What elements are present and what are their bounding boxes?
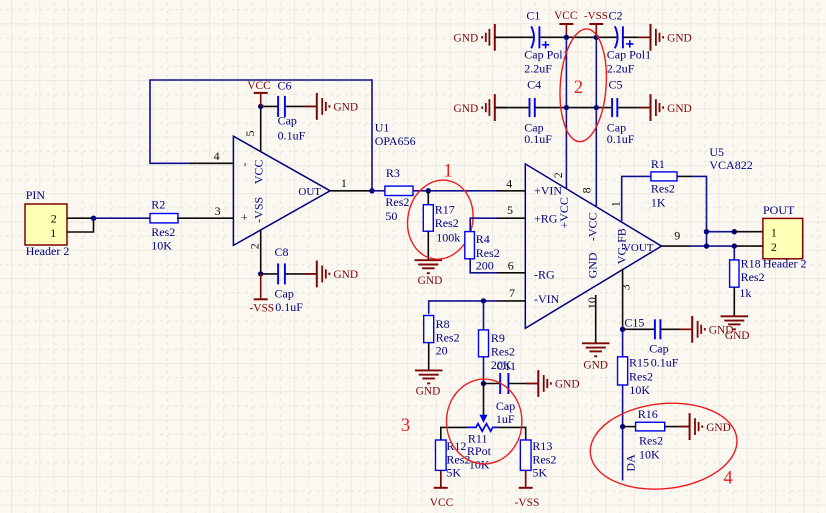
ground GND at C11 bbox=[526, 370, 579, 397]
svg-text:-VSS: -VSS bbox=[584, 10, 608, 22]
capacitor C15 bbox=[623, 316, 693, 370]
svg-text:0.1uF: 0.1uF bbox=[524, 132, 552, 146]
node junction pin7/R9 bbox=[481, 298, 486, 303]
svg-text:VCC: VCC bbox=[554, 10, 577, 22]
svg-text:OUT: OUT bbox=[298, 186, 321, 198]
svg-text:Cap: Cap bbox=[278, 114, 297, 128]
svg-text:GND: GND bbox=[583, 360, 608, 372]
svg-text:OPA656: OPA656 bbox=[375, 134, 416, 148]
capacitor C2 polarized bbox=[596, 8, 651, 75]
resistor R13 bbox=[520, 439, 556, 479]
svg-text:GND: GND bbox=[333, 102, 358, 114]
net label DA wire stub bbox=[623, 427, 638, 481]
svg-text:C4: C4 bbox=[527, 78, 541, 92]
wire C4 to C5 row bbox=[566, 107, 596, 109]
node junction C6/VCC/pin5 bbox=[258, 104, 263, 109]
pin 2 lead POUT bbox=[734, 245, 763, 247]
svg-text:C1: C1 bbox=[526, 8, 540, 22]
svg-text:Cap: Cap bbox=[649, 342, 668, 356]
svg-text:5K: 5K bbox=[446, 466, 461, 480]
wire R3 to U5 pin 4 bbox=[413, 177, 525, 191]
wire R18 to ground bbox=[733, 287, 735, 316]
wire U1 output to R3 bbox=[372, 190, 385, 192]
svg-text:6: 6 bbox=[508, 258, 514, 272]
node junction pin3/C15/R15 bbox=[620, 327, 625, 332]
capacitor C1 polarized bbox=[495, 8, 569, 75]
svg-text:1: 1 bbox=[608, 201, 622, 207]
svg-text:4: 4 bbox=[214, 149, 220, 163]
annotation number 4 bbox=[723, 469, 732, 489]
svg-text:-VSS: -VSS bbox=[252, 197, 266, 223]
capacitor C11 bbox=[484, 359, 539, 426]
svg-text:0.1uF: 0.1uF bbox=[607, 132, 635, 146]
svg-text:1K: 1K bbox=[651, 195, 666, 209]
svg-text:5: 5 bbox=[507, 203, 513, 217]
resistor R15 bbox=[618, 329, 653, 397]
connector J1 PIN header bbox=[25, 188, 69, 258]
node junction C5/-VSS rail bbox=[594, 105, 599, 110]
svg-text:+VCC: +VCC bbox=[557, 197, 571, 228]
svg-text:VCA822: VCA822 bbox=[709, 158, 752, 172]
wire R16 to ground bbox=[665, 426, 690, 428]
node junction R1 wire to output bbox=[704, 243, 709, 248]
capacitor C8 bbox=[261, 245, 317, 314]
svg-text:C15: C15 bbox=[624, 316, 644, 330]
annotation number 1 bbox=[443, 162, 452, 182]
resistor R16 bbox=[623, 407, 665, 461]
svg-text:-VIN: -VIN bbox=[534, 292, 560, 306]
svg-text:100k: 100k bbox=[436, 231, 460, 245]
resistor R9 bbox=[479, 301, 515, 372]
svg-text:10K: 10K bbox=[151, 238, 172, 252]
power -VSS at U1 pin 2 bbox=[249, 274, 274, 315]
wire R17 to ground bbox=[427, 231, 429, 260]
svg-text:R2: R2 bbox=[151, 197, 165, 211]
svg-text:2.2uF: 2.2uF bbox=[524, 62, 552, 76]
capacitor C6 bbox=[261, 79, 317, 143]
svg-text:0.1uF: 0.1uF bbox=[651, 356, 679, 370]
node junction U1 output feedback bbox=[369, 188, 374, 193]
svg-text:Cap Pol1: Cap Pol1 bbox=[524, 48, 568, 62]
node junction C4/VCC rail bbox=[564, 105, 569, 110]
svg-text:GND: GND bbox=[555, 379, 580, 391]
svg-text:GND: GND bbox=[667, 33, 692, 45]
pin 4 lead U1 bbox=[190, 149, 233, 163]
power -VSS under R13 bbox=[515, 470, 540, 509]
node junction R3/R17 bbox=[426, 188, 431, 193]
wire VCC rail to -VSS rail top bbox=[566, 36, 596, 38]
svg-text:C6: C6 bbox=[278, 79, 292, 93]
node junction R15/R16/DA bbox=[620, 424, 625, 429]
svg-text:R8: R8 bbox=[436, 317, 450, 331]
wire R9 to C11 node bbox=[483, 357, 485, 384]
svg-text:GND: GND bbox=[667, 103, 692, 115]
wire U5 pin 1 to R1 bbox=[622, 176, 651, 221]
node junction R1 wire crossing bbox=[704, 229, 709, 234]
svg-text:9: 9 bbox=[674, 228, 680, 242]
svg-text:POUT: POUT bbox=[763, 203, 795, 217]
svg-text:GND: GND bbox=[454, 33, 479, 45]
ground GND at C15 bbox=[680, 316, 733, 343]
ground earth GND under R17 bbox=[415, 260, 443, 287]
svg-text:Res2: Res2 bbox=[741, 270, 765, 284]
power VCC at C6 bbox=[247, 80, 270, 106]
node junction -VSS/C2 bbox=[594, 35, 599, 40]
svg-text:C2: C2 bbox=[609, 8, 623, 22]
svg-text:R3: R3 bbox=[386, 166, 400, 180]
svg-text:Header 2: Header 2 bbox=[26, 244, 70, 258]
node junction POUT pin1 column bbox=[732, 229, 737, 234]
svg-text:1: 1 bbox=[443, 162, 452, 182]
svg-text:GND: GND bbox=[586, 252, 600, 278]
svg-text:2: 2 bbox=[551, 172, 565, 178]
pin 3 lead U5 bbox=[622, 269, 624, 330]
ground earth GND under R8 bbox=[415, 370, 443, 397]
node junction C8/-VSS/pin2 bbox=[258, 271, 263, 276]
node junction R9/C11/R11 bbox=[481, 381, 486, 386]
wire R11 left to R12 bbox=[441, 427, 468, 440]
svg-text:2: 2 bbox=[771, 240, 777, 254]
svg-text:GND: GND bbox=[454, 103, 479, 115]
svg-text:R13: R13 bbox=[532, 439, 552, 453]
svg-text:4: 4 bbox=[723, 469, 732, 489]
svg-text:R9: R9 bbox=[491, 331, 505, 345]
wire header to R2 bbox=[94, 217, 151, 219]
resistor R2 bbox=[150, 197, 178, 252]
wire R1 to output node bbox=[677, 176, 707, 246]
wire wiper to R11 bbox=[483, 384, 485, 416]
svg-text:U5: U5 bbox=[709, 145, 724, 159]
svg-text:Res2: Res2 bbox=[151, 225, 175, 239]
ground GND left of C4 bbox=[454, 94, 507, 121]
svg-text:3: 3 bbox=[215, 204, 221, 218]
svg-text:+VIN: +VIN bbox=[534, 184, 562, 198]
svg-text:GND: GND bbox=[709, 325, 734, 337]
resistor R1 bbox=[651, 157, 677, 210]
wire R2 to U1 pin 3 bbox=[177, 204, 233, 218]
svg-text:-VSS: -VSS bbox=[249, 303, 274, 315]
svg-text:10: 10 bbox=[585, 297, 599, 309]
wire VCC rail to U5 pin 2 bbox=[565, 37, 567, 188]
svg-text:U1: U1 bbox=[375, 120, 390, 134]
svg-text:2: 2 bbox=[248, 243, 262, 249]
resistor R18 bbox=[730, 246, 765, 300]
svg-text:Cap: Cap bbox=[275, 286, 294, 300]
pin 10 lead U5 bbox=[595, 295, 597, 343]
svg-text:2: 2 bbox=[51, 211, 57, 225]
svg-text:8: 8 bbox=[580, 187, 594, 193]
svg-text:Res2: Res2 bbox=[651, 182, 675, 196]
wire R15 to R16 node bbox=[622, 385, 624, 427]
svg-text:0.1uF: 0.1uF bbox=[278, 129, 306, 143]
svg-text:+RG: +RG bbox=[534, 212, 558, 226]
svg-text:GND: GND bbox=[333, 269, 358, 281]
node junction VCC/C1 bbox=[564, 35, 569, 40]
resistor R3 bbox=[385, 166, 413, 223]
svg-text:50: 50 bbox=[385, 209, 397, 223]
wire R4 to U5 pin 6 bbox=[470, 258, 525, 273]
svg-text:-VSS: -VSS bbox=[515, 497, 540, 509]
pin 5 lead U1 bbox=[260, 106, 262, 151]
svg-text:C8: C8 bbox=[275, 245, 289, 259]
svg-text:Res2: Res2 bbox=[435, 216, 459, 230]
svg-text:1k: 1k bbox=[739, 286, 751, 300]
annotation ellipse 2 bbox=[556, 27, 610, 143]
wire R11 right to R13 bbox=[498, 427, 526, 440]
svg-text:1: 1 bbox=[341, 176, 347, 190]
wire U5 pin 7 row bbox=[429, 286, 526, 314]
svg-text:VCC: VCC bbox=[252, 159, 266, 184]
resistor R17 bbox=[423, 191, 460, 245]
ground GND at C8 bbox=[305, 261, 358, 288]
power -VSS top rail bbox=[584, 10, 608, 38]
svg-text:7: 7 bbox=[509, 286, 515, 300]
svg-text:Res2: Res2 bbox=[491, 344, 515, 358]
svg-text:GND: GND bbox=[706, 422, 731, 434]
svg-text:-VCC: -VCC bbox=[586, 212, 600, 241]
svg-text:GND: GND bbox=[416, 386, 441, 398]
svg-text:Res2: Res2 bbox=[436, 331, 460, 345]
svg-text:Res2: Res2 bbox=[639, 434, 663, 448]
ground GND right of C5 bbox=[639, 94, 692, 121]
pin 1 lead POUT bbox=[734, 231, 763, 233]
power VCC top rail bbox=[554, 10, 577, 38]
potentiometer R11 RPot bbox=[467, 415, 498, 471]
svg-text:R16: R16 bbox=[638, 407, 658, 421]
svg-text:4: 4 bbox=[506, 177, 512, 191]
svg-text:R15: R15 bbox=[629, 356, 649, 370]
svg-text:3: 3 bbox=[401, 416, 410, 436]
designator U1 OPA656 bbox=[375, 120, 416, 148]
pin 1 lead header PIN bbox=[67, 218, 94, 232]
ground GND right of C2 bbox=[639, 24, 692, 51]
capacitor C5 bbox=[596, 78, 650, 147]
svg-text:VCC: VCC bbox=[247, 80, 270, 92]
svg-text:200: 200 bbox=[476, 258, 494, 272]
svg-text:R18: R18 bbox=[741, 257, 761, 271]
annotation number 2 bbox=[574, 78, 583, 98]
op-amp U1 OPA656 bbox=[233, 131, 330, 250]
ground GND at R16 bbox=[678, 413, 731, 440]
svg-text:5K: 5K bbox=[532, 466, 547, 480]
svg-text:R1: R1 bbox=[651, 157, 665, 171]
svg-text:RPot: RPot bbox=[467, 444, 492, 458]
svg-text:-: - bbox=[237, 163, 251, 167]
svg-text:5: 5 bbox=[243, 131, 257, 137]
svg-text:GND: GND bbox=[418, 275, 443, 287]
connector POUT header bbox=[763, 203, 807, 271]
svg-text:R4: R4 bbox=[476, 232, 490, 246]
ground earth GND under R18 bbox=[721, 316, 750, 342]
svg-text:10K: 10K bbox=[629, 383, 650, 397]
annotation ellipse 4 bbox=[586, 396, 741, 496]
wire U5 output to POUT bbox=[690, 245, 734, 247]
resistor R4 bbox=[465, 203, 526, 272]
svg-text:1: 1 bbox=[50, 226, 56, 240]
svg-text:1uF: 1uF bbox=[496, 412, 515, 426]
pin 1 output lead U1 bbox=[330, 176, 372, 191]
svg-text:Cap Pol1: Cap Pol1 bbox=[607, 48, 651, 62]
annotation ellipse 1 bbox=[400, 174, 480, 265]
annotation number 3 bbox=[401, 416, 410, 436]
svg-text:20: 20 bbox=[436, 344, 448, 358]
svg-text:1: 1 bbox=[771, 226, 777, 240]
wire -VSS rail to U5 pin 8 bbox=[595, 37, 597, 206]
svg-text:C5: C5 bbox=[609, 78, 623, 92]
svg-text:Res2: Res2 bbox=[629, 369, 653, 383]
svg-text:-RG: -RG bbox=[534, 268, 555, 282]
op-amp U5 VCA822 bbox=[525, 164, 661, 328]
svg-text:C11: C11 bbox=[497, 359, 517, 373]
designator U5 VCA822 bbox=[709, 145, 752, 172]
svg-text:VG-FB: VG-FB bbox=[615, 228, 629, 264]
svg-text:3: 3 bbox=[619, 284, 633, 290]
node junction header to R2 bbox=[91, 216, 96, 221]
svg-text:Header 2: Header 2 bbox=[763, 257, 807, 271]
power VCC under R12 bbox=[430, 470, 453, 509]
pin 9 output lead U5 bbox=[662, 228, 691, 246]
svg-text:0.1uF: 0.1uF bbox=[275, 300, 303, 314]
pin 2 lead U1 bbox=[260, 230, 262, 274]
svg-text:Res2: Res2 bbox=[385, 195, 409, 209]
node junction POUT pin2 column bbox=[732, 243, 737, 248]
svg-text:Res2: Res2 bbox=[532, 452, 556, 466]
svg-text:+: + bbox=[237, 214, 251, 221]
ground GND at C6 bbox=[305, 93, 358, 120]
svg-text:2.2uF: 2.2uF bbox=[607, 62, 635, 76]
svg-text:VCC: VCC bbox=[430, 497, 453, 509]
svg-text:PIN: PIN bbox=[26, 188, 46, 202]
svg-text:R17: R17 bbox=[435, 202, 455, 216]
ground GND left of C1 bbox=[454, 24, 507, 51]
resistor R8 bbox=[424, 316, 460, 358]
wire pin1-row to POUT pin 1 bbox=[707, 231, 735, 233]
wire R8 to ground bbox=[428, 343, 430, 371]
svg-text:2: 2 bbox=[574, 78, 583, 98]
pin 2 lead header PIN bbox=[67, 217, 94, 219]
wire feedback loop U1 output to pin 4 bbox=[150, 80, 372, 191]
ground earth GND under U5 pin 10 bbox=[582, 343, 610, 371]
svg-text:10K: 10K bbox=[639, 447, 660, 461]
svg-text:DA: DA bbox=[624, 454, 638, 472]
resistor R12 bbox=[436, 439, 471, 479]
annotation ellipse 3 bbox=[447, 379, 522, 464]
capacitor C4 bbox=[495, 78, 567, 147]
